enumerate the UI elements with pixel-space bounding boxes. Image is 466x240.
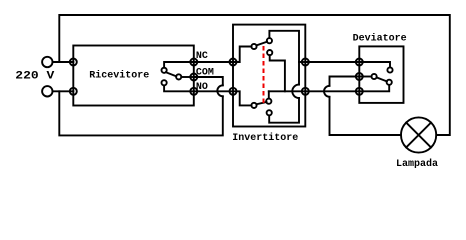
lamp Lampada <box>401 117 436 152</box>
invertitore contact Td <box>267 50 272 55</box>
wire Tu to upper output <box>269 31 299 62</box>
wire deviatore lower traveler to contact <box>359 85 389 91</box>
wire hop lamp feed over lower traveler <box>324 86 329 97</box>
mechanical link red dashed <box>263 46 265 105</box>
svg-text:Invertitore: Invertitore <box>232 132 298 144</box>
node receiver input top <box>70 59 77 66</box>
invertitore contact Tu <box>267 38 272 43</box>
wire hop Bd riser over O2 line <box>292 85 299 98</box>
wire O1 stub to node <box>299 61 305 63</box>
wire relay COM to node <box>181 76 194 78</box>
node receiver input bottom <box>70 88 77 95</box>
wire O1 traveler to deviatore <box>305 61 359 63</box>
svg-text:Deviatore: Deviatore <box>353 33 407 45</box>
relay contact NO circle <box>162 80 167 85</box>
node NC <box>190 59 197 66</box>
node invertitore out bottom <box>302 88 309 95</box>
svg-text:NO: NO <box>196 82 208 93</box>
relay contact COM circle <box>176 74 181 79</box>
node deviatore traveler top <box>356 59 363 66</box>
svg-text:NC: NC <box>196 51 208 62</box>
wire relay NC to node <box>164 62 194 68</box>
node COM <box>190 74 197 81</box>
wire Bd riser top joins O1 <box>298 62 300 85</box>
wire hop COM return over NO line <box>217 85 222 96</box>
wire invertitore input bottom stub <box>233 91 251 105</box>
label 220 V <box>15 70 55 83</box>
svg-text:COM: COM <box>196 68 214 79</box>
relay contact arm <box>166 72 176 76</box>
wire deviatore common to lamp <box>330 77 360 86</box>
terminal 220V bottom <box>42 86 52 96</box>
deviatore contact upper <box>387 67 392 72</box>
wire lamp feed down to lamp <box>330 97 401 135</box>
deviatore arm <box>377 77 387 81</box>
wire bottom terminal to receiver <box>53 90 74 92</box>
box Ricevitore <box>73 46 194 106</box>
invertitore top arm <box>256 42 267 46</box>
wire neutral down-left rail to COM return <box>59 91 223 135</box>
wire top rail phase 220V to lamp <box>59 15 450 135</box>
relay contact NC circle <box>162 68 167 73</box>
invertitore bottom arm <box>256 102 266 104</box>
svg-text:220 V: 220 V <box>15 70 55 83</box>
wire NC line to invertitore <box>194 61 233 63</box>
wire O2 line <box>269 90 306 92</box>
invertitore bottom pivot circle <box>251 103 256 108</box>
wire Bu riser to O2 line <box>268 91 270 98</box>
invertitore top pivot circle <box>251 44 256 49</box>
wire relay NO to node <box>164 85 194 91</box>
deviatore contact lower <box>387 80 392 85</box>
invertitore contact Bu <box>266 99 271 104</box>
wire Td to lower output <box>270 55 285 91</box>
node invertitore in top <box>230 59 237 66</box>
lamp cross <box>406 123 431 148</box>
svg-text:Lampada: Lampada <box>396 158 438 170</box>
box Deviatore <box>359 46 403 103</box>
node deviatore traveler bottom <box>356 88 363 95</box>
wire deviatore upper traveler to contact <box>359 62 390 67</box>
node invertitore out top <box>302 59 309 66</box>
invertitore contact Bd <box>267 110 272 115</box>
wire NO line to invertitore <box>194 90 233 92</box>
wire top terminal to receiver <box>53 61 74 63</box>
node NO <box>190 88 197 95</box>
wire Bd to riser <box>269 98 299 123</box>
wire invertitore input top stub <box>233 47 251 63</box>
terminal 220V top <box>42 57 52 67</box>
svg-text:Ricevitore: Ricevitore <box>89 70 149 82</box>
wire deviatore common stub <box>359 76 371 78</box>
node invertitore in bottom <box>230 88 237 95</box>
deviatore pivot circle <box>372 74 377 79</box>
box Invertitore <box>233 25 305 127</box>
node deviatore common <box>356 73 363 80</box>
wire O2 traveler to deviatore <box>305 90 359 92</box>
wire COM return riser to COM line <box>194 77 223 85</box>
